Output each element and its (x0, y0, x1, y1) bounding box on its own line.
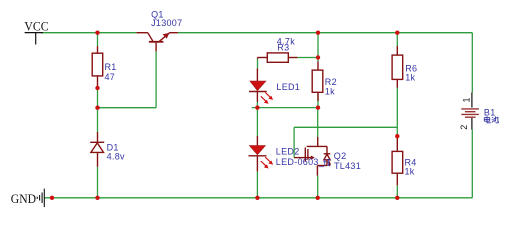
svg-text:1k: 1k (325, 86, 335, 96)
svg-text:Q2: Q2 (334, 151, 347, 161)
svg-text:R1: R1 (105, 62, 117, 72)
svg-text:4.8v: 4.8v (107, 152, 125, 162)
svg-text:R3: R3 (277, 42, 289, 52)
svg-text:1k: 1k (405, 72, 415, 82)
svg-text:47: 47 (105, 72, 116, 82)
svg-text:1: 1 (462, 97, 472, 102)
svg-text:GND: GND (11, 191, 36, 206)
svg-text:LED-0603_: LED-0603_ (276, 157, 325, 167)
svg-text:TL431: TL431 (334, 161, 361, 171)
svg-text:LED1: LED1 (276, 82, 300, 92)
svg-text:2: 2 (459, 125, 469, 130)
svg-text:R2: R2 (325, 77, 337, 87)
svg-text:J13007: J13007 (151, 18, 182, 28)
svg-text:B1: B1 (484, 107, 496, 117)
svg-text:1k: 1k (405, 167, 415, 177)
svg-text:VCC: VCC (24, 19, 48, 34)
svg-text:LED2: LED2 (276, 147, 300, 157)
